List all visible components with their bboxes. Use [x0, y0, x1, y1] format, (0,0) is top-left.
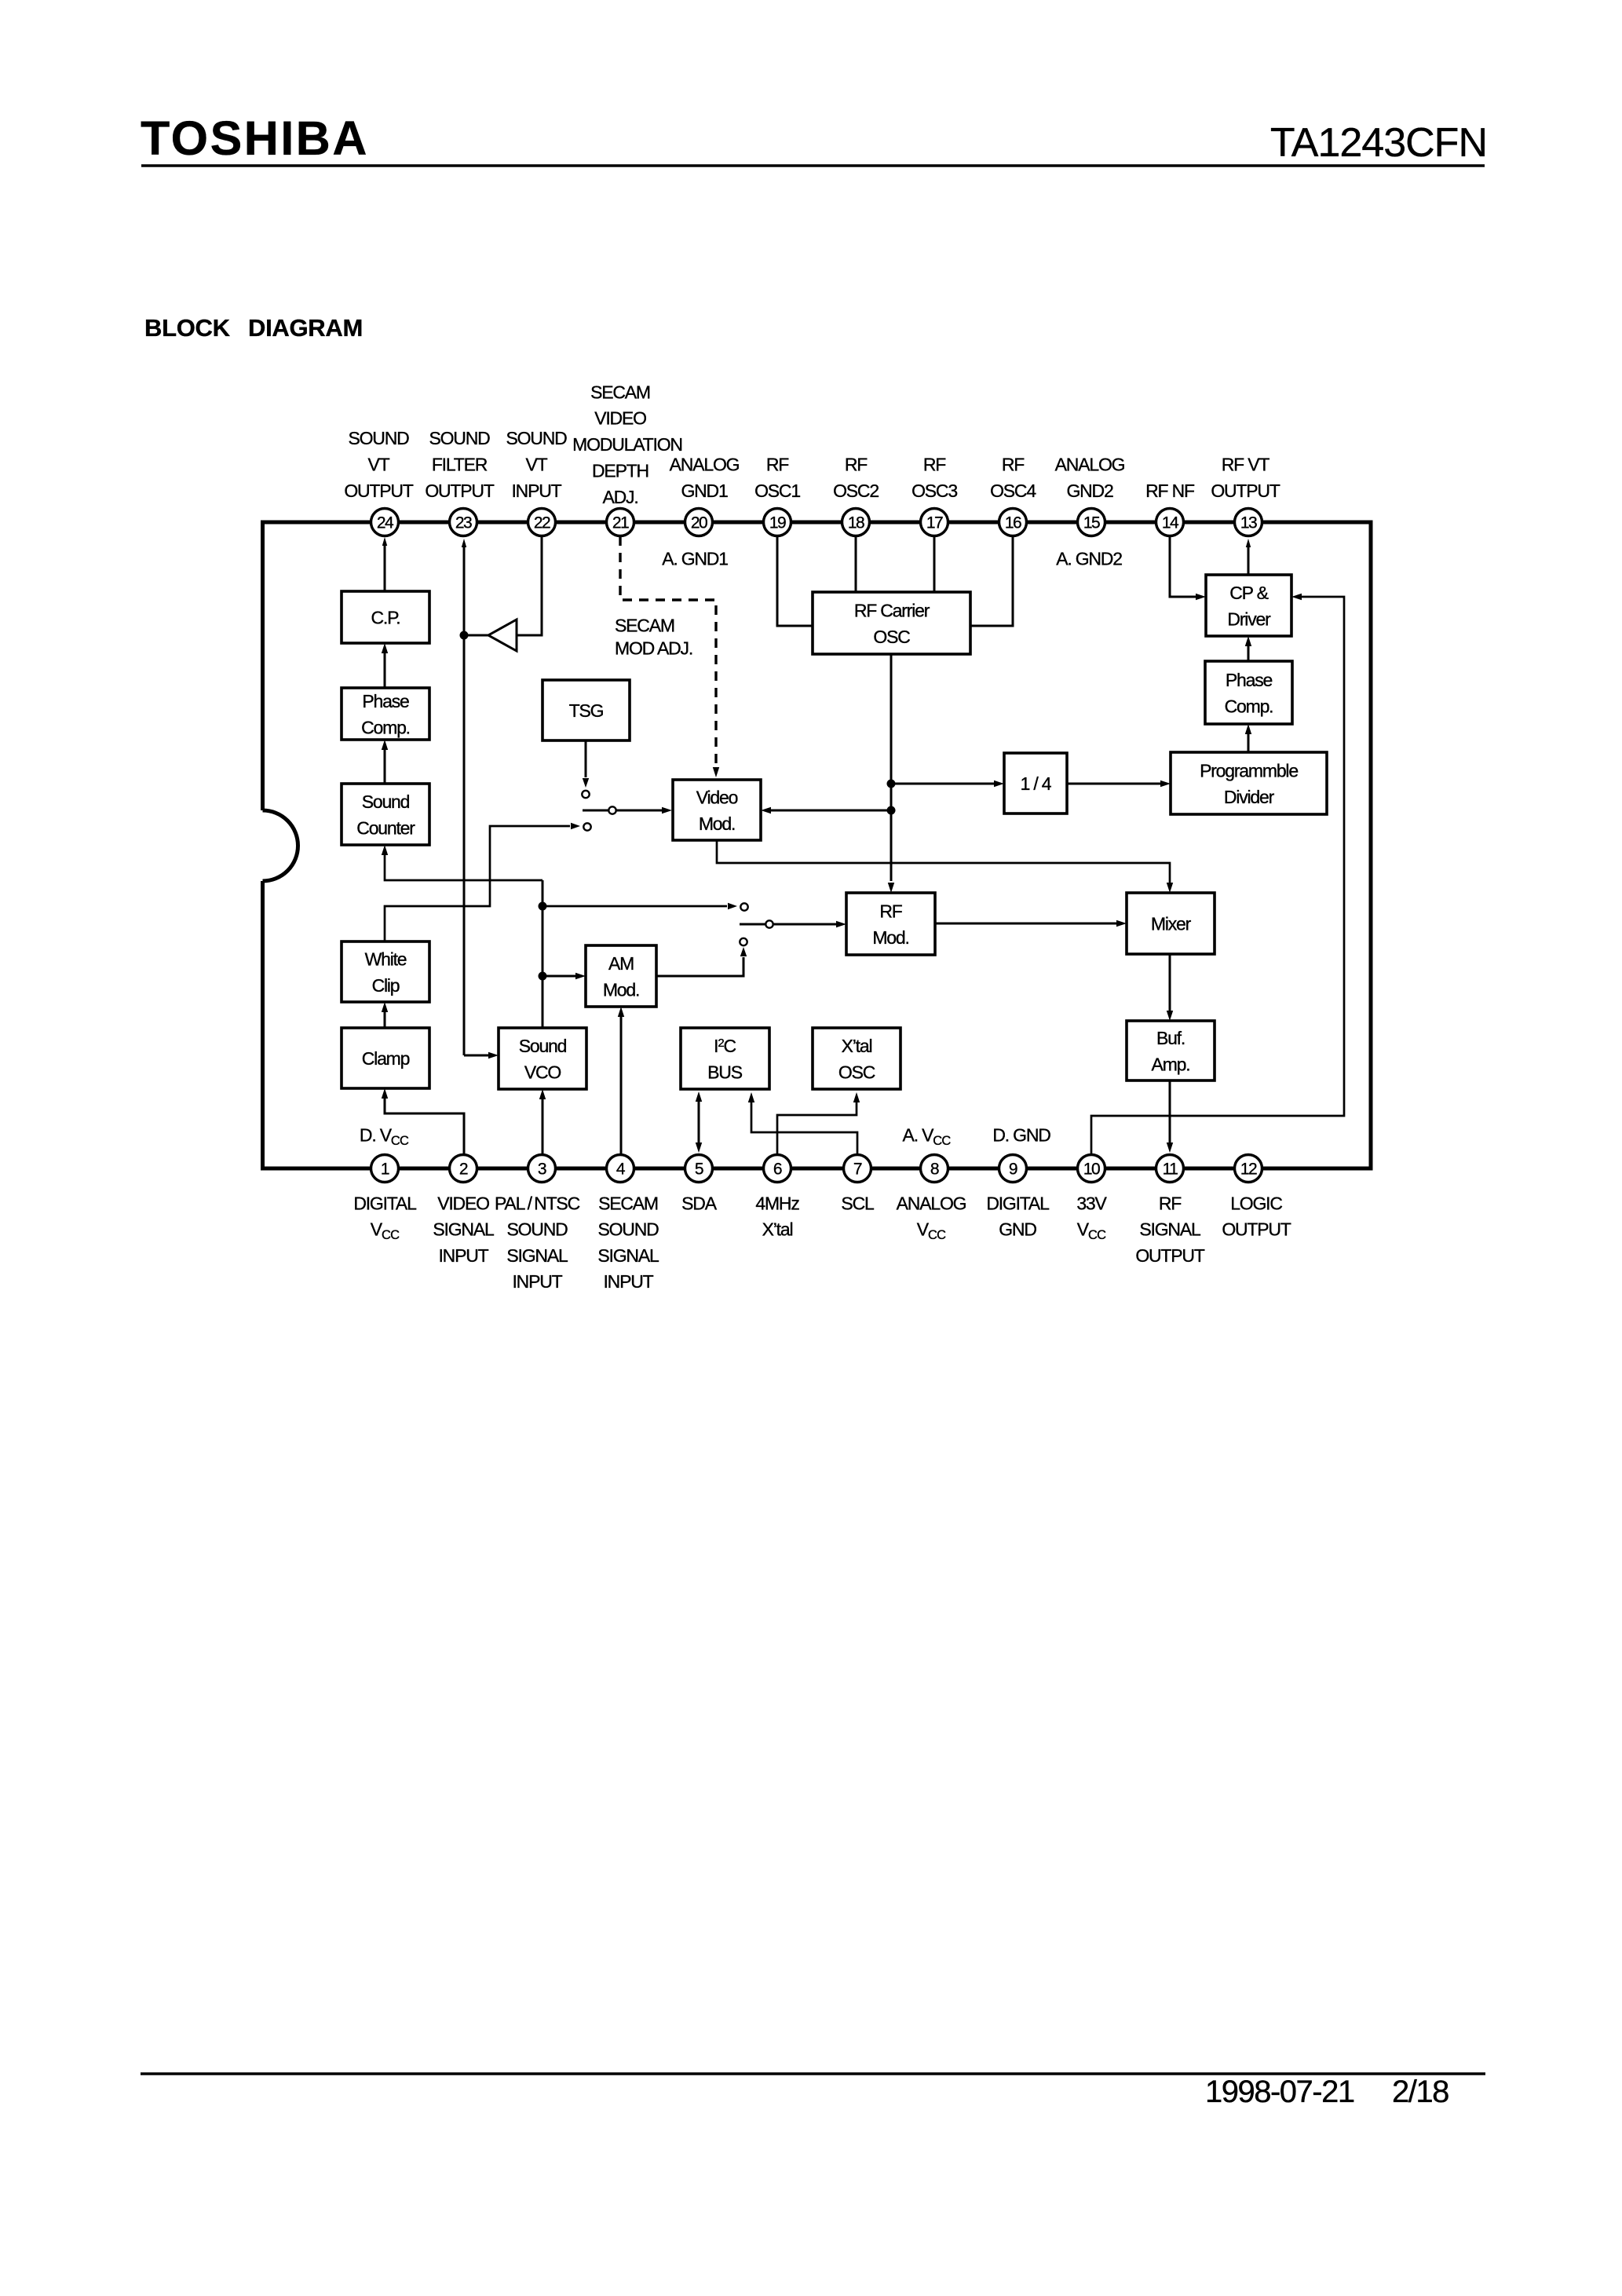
- wire TSG to switch contact: [585, 740, 587, 777]
- svg-text:RF: RF: [845, 454, 868, 474]
- svg-text:INPUT: INPUT: [603, 1271, 653, 1292]
- pin 18: [842, 509, 870, 536]
- svg-text:ANALOG: ANALOG: [1055, 454, 1125, 474]
- wire Sound Counter to Phase Comp: [384, 750, 386, 784]
- svg-text:TSG: TSG: [569, 700, 604, 721]
- wire pin 5 to I2C BUS bidirectional: [698, 1102, 700, 1143]
- svg-text:SIGNAL: SIGNAL: [506, 1245, 568, 1266]
- wire pin 14 to CP & Driver: [1170, 536, 1196, 597]
- pin 24: [371, 509, 399, 536]
- block White Clip: [342, 941, 429, 1002]
- wire buffer apex to pin-23 line: [464, 634, 488, 637]
- block C.P.: [342, 591, 429, 643]
- switch pole contact video: [608, 806, 616, 813]
- svg-text:Driver: Driver: [1227, 609, 1271, 629]
- wire pin 22 to buffer input: [517, 536, 542, 635]
- junction Sound VCO to RF switch: [539, 902, 547, 911]
- pin 21: [607, 509, 634, 536]
- svg-text:VIDEO: VIDEO: [437, 1193, 489, 1213]
- svg-text:15: 15: [1083, 514, 1100, 532]
- svg-text:Comp.: Comp.: [1225, 696, 1273, 716]
- junction RF carrier to Video Mod: [887, 806, 896, 815]
- svg-text:Mod.: Mod.: [872, 927, 908, 948]
- switch contact from White Clip: [583, 823, 590, 830]
- svg-text:AM: AM: [608, 953, 634, 974]
- wire to RF Mod switch contact: [542, 905, 727, 908]
- pin 1: [371, 1155, 399, 1183]
- pin 16: [999, 509, 1027, 536]
- svg-text:RF: RF: [766, 454, 789, 474]
- svg-text:RF NF: RF NF: [1145, 481, 1195, 501]
- pin 11: [1156, 1155, 1184, 1183]
- pin 6: [764, 1155, 791, 1183]
- svg-text:GND1: GND1: [681, 481, 728, 501]
- svg-text:ADJ.: ADJ.: [602, 487, 637, 507]
- block 1/4 divider: [1004, 753, 1067, 813]
- wire C.P. to pin 24: [384, 545, 386, 591]
- svg-text:1: 1: [381, 1161, 389, 1179]
- svg-text:A. VCC: A. VCC: [903, 1124, 952, 1148]
- svg-text:VCO: VCO: [524, 1062, 561, 1082]
- svg-text:SOUND: SOUND: [429, 428, 490, 448]
- svg-text:SIGNAL: SIGNAL: [433, 1219, 495, 1240]
- svg-text:OUTPUT: OUTPUT: [425, 481, 495, 501]
- svg-text:VCC: VCC: [1077, 1219, 1106, 1243]
- svg-text:19: 19: [769, 514, 786, 532]
- pin 4: [607, 1155, 634, 1183]
- svg-text:Counter: Counter: [356, 817, 415, 838]
- wire Programmble Divider to Phase Comp: [1248, 734, 1250, 752]
- wire to 1/4 divider: [891, 783, 994, 785]
- svg-text:OSC2: OSC2: [833, 481, 879, 501]
- wire into Video Mod right side: [771, 810, 891, 812]
- wire RF Carrier OSC output down to RF Mod: [890, 654, 893, 881]
- svg-text:9: 9: [1009, 1161, 1017, 1179]
- block Phase Comp left: [342, 688, 429, 740]
- switch pole contact rf: [765, 920, 773, 927]
- svg-text:INPUT: INPUT: [511, 481, 561, 501]
- svg-text:4MHz: 4MHz: [755, 1193, 799, 1213]
- svg-text:Sound: Sound: [362, 792, 410, 812]
- svg-text:DIGITAL: DIGITAL: [986, 1193, 1050, 1213]
- svg-text:Clamp: Clamp: [362, 1048, 410, 1069]
- block Sound VCO: [499, 1028, 586, 1089]
- wire CP & Driver to pin 13: [1248, 547, 1250, 575]
- svg-text:VCC: VCC: [917, 1219, 946, 1243]
- svg-text:RF VT: RF VT: [1222, 454, 1270, 474]
- svg-text:VCC: VCC: [371, 1219, 400, 1243]
- block Video Mod: [673, 780, 761, 840]
- svg-text:ANALOG: ANALOG: [670, 454, 740, 474]
- svg-text:23: 23: [455, 514, 472, 532]
- svg-text:White: White: [365, 949, 407, 969]
- svg-text:X’tal: X’tal: [762, 1219, 793, 1240]
- svg-text:Mod.: Mod.: [603, 979, 639, 1000]
- pin 19: [764, 509, 791, 536]
- svg-text:21: 21: [612, 514, 629, 532]
- block CP & Driver: [1206, 575, 1291, 636]
- wire pin 3 to Sound VCO: [542, 1099, 544, 1154]
- wire AM Mod output to switch contact: [656, 957, 743, 976]
- switch pole wire into RF Mod: [740, 923, 836, 926]
- svg-text:8: 8: [930, 1161, 939, 1179]
- svg-text:Clip: Clip: [372, 975, 400, 996]
- svg-text:SOUND: SOUND: [597, 1219, 659, 1240]
- svg-text:13: 13: [1240, 514, 1257, 532]
- wire 1/4 to Programmble Divider: [1067, 783, 1160, 785]
- wire Video Mod output to Mixer: [717, 840, 1170, 883]
- wire Phase Comp to C.P.: [384, 653, 386, 688]
- svg-text:D. VCC: D. VCC: [360, 1124, 409, 1148]
- svg-text:20: 20: [691, 514, 707, 532]
- svg-text:14: 14: [1162, 514, 1179, 532]
- svg-text:12: 12: [1240, 1161, 1257, 1179]
- svg-text:OSC1: OSC1: [754, 481, 800, 501]
- block RF Carrier OSC: [813, 592, 970, 654]
- pin 9: [999, 1155, 1027, 1183]
- svg-text:33V: 33V: [1076, 1193, 1107, 1213]
- pin 3: [528, 1155, 556, 1183]
- svg-text:TOSHIBA: TOSHIBA: [141, 112, 369, 165]
- svg-text:MOD ADJ.: MOD ADJ.: [615, 638, 692, 658]
- svg-text:SECAM: SECAM: [615, 615, 674, 635]
- svg-text:SOUND: SOUND: [348, 428, 409, 448]
- svg-text:SIGNAL: SIGNAL: [1139, 1219, 1201, 1240]
- svg-text:OUTPUT: OUTPUT: [1222, 1219, 1291, 1240]
- switch contact from AM Mod: [740, 938, 747, 945]
- switch contact from TSG: [582, 791, 589, 798]
- svg-text:A. GND1: A. GND1: [662, 548, 728, 569]
- block Mixer: [1127, 893, 1215, 954]
- svg-text:1998-07-21: 1998-07-21: [1205, 2075, 1354, 2109]
- pin 2: [450, 1155, 477, 1183]
- svg-text:BUS: BUS: [707, 1062, 743, 1083]
- pin 13: [1235, 509, 1262, 536]
- svg-text:10: 10: [1083, 1161, 1100, 1179]
- svg-text:Programmble: Programmble: [1200, 760, 1298, 781]
- svg-text:CP &: CP &: [1229, 583, 1268, 603]
- svg-text:22: 22: [534, 514, 550, 532]
- pin 23: [450, 509, 477, 536]
- pin 8: [921, 1155, 948, 1183]
- svg-text:SECAM: SECAM: [590, 382, 650, 402]
- svg-text:DEPTH: DEPTH: [592, 461, 648, 481]
- junction buffer output: [460, 631, 469, 640]
- pin 17: [921, 509, 948, 536]
- svg-text:OSC4: OSC4: [990, 481, 1036, 501]
- wire to AM Mod input: [542, 975, 575, 978]
- svg-text:GND2: GND2: [1066, 481, 1113, 501]
- block Programmble Divider: [1171, 752, 1327, 814]
- pin-1 index notch: [263, 810, 298, 881]
- svg-text:Divider: Divider: [1224, 787, 1275, 807]
- svg-text:SECAM: SECAM: [598, 1193, 658, 1213]
- wire pin 2 to Clamp: [385, 1099, 464, 1154]
- pin 15: [1078, 509, 1105, 536]
- svg-text:18: 18: [848, 514, 864, 532]
- wire pin 10 feedback to CP & Driver: [1091, 597, 1344, 1154]
- IC package outline: [263, 522, 1372, 1168]
- svg-text:1 / 4: 1 / 4: [1021, 773, 1052, 794]
- block Clamp: [342, 1028, 429, 1088]
- svg-text:LOGIC: LOGIC: [1230, 1193, 1282, 1213]
- svg-text:OUTPUT: OUTPUT: [1135, 1245, 1205, 1266]
- block TSG: [542, 680, 630, 740]
- wire Phase Comp to CP & Driver: [1248, 646, 1250, 661]
- wire pin 16 to RF Carrier OSC: [970, 536, 1013, 626]
- svg-text:OSC: OSC: [838, 1062, 875, 1082]
- wire pin 6 to X'tal OSC: [777, 1102, 857, 1154]
- svg-text:Sound: Sound: [519, 1036, 567, 1056]
- header rule: [141, 164, 1485, 167]
- svg-text:ANALOG: ANALOG: [897, 1193, 966, 1213]
- svg-text:RF: RF: [879, 901, 902, 921]
- svg-text:Buf.: Buf.: [1156, 1028, 1185, 1048]
- svg-text:X’tal: X’tal: [842, 1036, 872, 1056]
- wire RF Mod to Mixer: [935, 923, 1116, 925]
- wire Sound VCO output to Sound Counter: [542, 880, 544, 1028]
- wire pin 23 / buffer output to Sound VCO: [462, 539, 466, 547]
- svg-text:OUTPUT: OUTPUT: [1211, 481, 1280, 501]
- dashed wire pin 21 SECAM mod adj to Video Mod: [620, 536, 716, 763]
- pin 22: [528, 509, 556, 536]
- pin 7: [844, 1155, 871, 1183]
- svg-text:FILTER: FILTER: [432, 454, 488, 474]
- svg-text:24: 24: [377, 514, 394, 532]
- svg-text:PAL / NTSC: PAL / NTSC: [495, 1193, 580, 1213]
- svg-text:MODULATION: MODULATION: [572, 434, 682, 455]
- svg-text:OUTPUT: OUTPUT: [344, 481, 414, 501]
- block RF Mod: [846, 893, 935, 955]
- wire White Clip output to switch contact: [385, 826, 570, 941]
- block AM Mod: [586, 945, 656, 1007]
- svg-text:SOUND: SOUND: [506, 428, 567, 448]
- svg-text:6: 6: [773, 1161, 782, 1179]
- svg-text:OSC: OSC: [873, 627, 910, 647]
- svg-text:RF: RF: [923, 454, 946, 474]
- wire Clamp to White Clip: [384, 1012, 386, 1028]
- block I2C BUS: [681, 1028, 769, 1089]
- svg-text:Phase: Phase: [362, 691, 409, 711]
- svg-text:RF Carrier: RF Carrier: [854, 600, 930, 620]
- svg-text:Mod.: Mod.: [699, 813, 735, 834]
- svg-text:Amp.: Amp.: [1152, 1054, 1190, 1074]
- block X'tal OSC: [813, 1028, 901, 1089]
- svg-text:VIDEO: VIDEO: [594, 408, 646, 429]
- svg-text:INPUT: INPUT: [438, 1245, 488, 1266]
- wire pin 17 to RF Carrier OSC: [933, 536, 936, 592]
- block Buf Amp: [1127, 1021, 1215, 1080]
- switch pole wire into Video Mod: [583, 810, 662, 812]
- svg-text:2/18: 2/18: [1392, 2075, 1448, 2109]
- svg-text:SCL: SCL: [841, 1193, 875, 1213]
- wire pin 18 to RF Carrier OSC: [855, 536, 857, 592]
- svg-text:RF: RF: [1159, 1193, 1182, 1213]
- svg-text:DIGITAL: DIGITAL: [353, 1193, 417, 1213]
- svg-text:3: 3: [538, 1161, 546, 1179]
- svg-text:Phase: Phase: [1226, 670, 1273, 690]
- pin 5: [685, 1155, 713, 1183]
- svg-text:DIAGRAM: DIAGRAM: [248, 314, 363, 342]
- svg-text:16: 16: [1005, 514, 1021, 532]
- svg-text:5: 5: [695, 1161, 703, 1179]
- svg-text:2: 2: [459, 1161, 468, 1179]
- footer rule: [141, 2072, 1485, 2075]
- svg-text:SIGNAL: SIGNAL: [597, 1245, 659, 1266]
- svg-text:SDA: SDA: [681, 1193, 718, 1213]
- svg-text:VT: VT: [368, 454, 390, 474]
- svg-text:GND: GND: [999, 1219, 1036, 1240]
- wire pin 4 to AM Mod: [620, 1017, 623, 1154]
- junction RF carrier to 1/4: [887, 780, 896, 788]
- switch contact sound: [740, 903, 747, 910]
- svg-text:TA1243CFN: TA1243CFN: [1270, 120, 1487, 166]
- svg-text:D. GND: D. GND: [992, 1124, 1050, 1145]
- pin 12: [1235, 1155, 1262, 1183]
- pin 14: [1156, 509, 1184, 536]
- svg-text:SOUND: SOUND: [506, 1219, 568, 1240]
- pin 10: [1078, 1155, 1105, 1183]
- buffer amplifier: [488, 620, 517, 651]
- svg-text:INPUT: INPUT: [512, 1271, 562, 1292]
- svg-text:I2C: I2C: [714, 1036, 736, 1056]
- pin 20: [685, 509, 713, 536]
- svg-text:OSC3: OSC3: [911, 481, 957, 501]
- svg-text:Mixer: Mixer: [1151, 913, 1192, 934]
- junction Sound VCO to AM Mod: [539, 972, 547, 981]
- svg-text:A. GND2: A. GND2: [1056, 548, 1122, 569]
- svg-text:7: 7: [853, 1161, 862, 1179]
- svg-text:VT: VT: [526, 454, 548, 474]
- svg-text:Video: Video: [696, 787, 738, 807]
- wire Mixer to Buf Amp: [1169, 954, 1171, 1011]
- wire pin 7 to I2C BUS: [751, 1102, 857, 1154]
- svg-text:17: 17: [926, 514, 943, 532]
- block Sound Counter: [342, 784, 429, 845]
- wire Buf Amp to pin 11: [1169, 1080, 1171, 1143]
- wire pin 19 to RF Carrier OSC: [777, 536, 813, 626]
- svg-text:RF: RF: [1002, 454, 1025, 474]
- svg-text:BLOCK: BLOCK: [144, 314, 231, 342]
- svg-text:Comp.: Comp.: [361, 717, 410, 737]
- block Phase Comp right: [1205, 661, 1292, 724]
- svg-text:C.P.: C.P.: [371, 607, 400, 627]
- svg-text:11: 11: [1163, 1161, 1178, 1179]
